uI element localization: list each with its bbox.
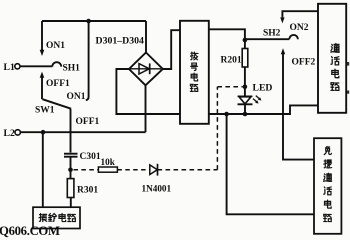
svg-text:ON1: ON1 xyxy=(67,92,86,102)
wire C301 to junction xyxy=(70,157,72,179)
junction L2 ringer tap xyxy=(41,130,46,135)
scan nub right edge lower xyxy=(347,91,349,94)
wire SH2 lead xyxy=(245,38,289,40)
svg-text:10k: 10k xyxy=(101,157,116,167)
bridge rectifier D301-D304 xyxy=(129,53,163,86)
junction LED lower bus xyxy=(243,112,248,117)
svg-text:Q606.COM: Q606.COM xyxy=(0,224,60,238)
scan nub right edge upper xyxy=(347,62,349,66)
wire ON1 hookswitch upper plunger xyxy=(41,21,43,50)
resistor R201 xyxy=(242,49,248,68)
svg-text:LED: LED xyxy=(253,83,273,94)
wire R201 top lead xyxy=(244,40,246,49)
svg-text:1N4001: 1N4001 xyxy=(142,184,172,194)
svg-text:R301: R301 xyxy=(77,186,98,196)
arrow OFF1 (up) xyxy=(40,72,45,78)
junction lower bus handsfree tap xyxy=(224,112,229,117)
wire bridge left arm down to lower bus xyxy=(116,69,180,114)
dashed control line to LED node xyxy=(217,86,242,88)
svg-text:OFF2: OFF2 xyxy=(292,58,316,68)
wire SW1 fixed contact drop from top bus xyxy=(86,21,89,100)
dashed control riser xyxy=(216,87,218,170)
arrow OFF2 (up) xyxy=(281,48,285,54)
wire lower bus dial box to speech box xyxy=(209,105,318,114)
dashed control line C301 node to 10k xyxy=(74,169,99,171)
wire R301 to ringer box xyxy=(70,198,72,208)
switch SH1 contact hook xyxy=(52,62,61,66)
switch SW1 blade xyxy=(42,99,71,109)
svg-text:SW1: SW1 xyxy=(35,106,55,116)
diode 1N4001 xyxy=(150,164,158,176)
wire bridge top arm xyxy=(145,21,147,53)
svg-text:OFF1: OFF1 xyxy=(76,117,100,127)
dashed control line 10k to diode xyxy=(117,169,149,171)
svg-text:C301: C301 xyxy=(80,152,101,162)
svg-text:L2: L2 xyxy=(4,128,15,139)
arrow ON1 (down) xyxy=(40,50,45,56)
terminal L1 xyxy=(15,64,20,69)
junction C301 R301 dashed node xyxy=(68,168,73,173)
svg-text:SH1: SH1 xyxy=(63,63,81,73)
wire R201 to LED xyxy=(244,67,246,96)
svg-text:D301–D304: D301–D304 xyxy=(96,36,145,47)
box dial circuit 拨号电路 xyxy=(180,21,209,124)
junction LED dashed node xyxy=(243,84,248,89)
arrow ON2 (down) xyxy=(280,17,284,23)
svg-text:ON2: ON2 xyxy=(290,23,309,33)
wire OFF2 drop to handsfree box xyxy=(283,54,314,160)
svg-text:SH2: SH2 xyxy=(263,29,281,39)
resistor 10k (horizontal) xyxy=(98,167,117,172)
wire L1 lead xyxy=(20,65,52,67)
wire L2 branch to ringer box xyxy=(42,132,44,207)
wire top bus L1 to bridge xyxy=(42,20,146,22)
box ringer circuit 振铃电路 xyxy=(33,207,80,228)
dashed control line diode to riser xyxy=(158,169,218,171)
svg-text:ON1: ON1 xyxy=(46,41,65,51)
wire blade to C301 xyxy=(70,109,72,153)
wire bridge bottom arm to L2 xyxy=(145,85,147,132)
wire OFF1 plunger lower xyxy=(41,77,43,99)
svg-text:OFF1: OFF1 xyxy=(46,79,70,89)
box speech circuit 通话电路 xyxy=(318,4,346,113)
LED D201 xyxy=(238,96,261,105)
wire bridge right arm to dial box xyxy=(163,30,180,69)
capacitor C301 xyxy=(64,154,78,157)
svg-text:L1: L1 xyxy=(4,62,15,73)
switch SH2 contact hook xyxy=(289,35,298,39)
svg-text:R201: R201 xyxy=(221,56,242,66)
wire lower bus branch to handsfree box xyxy=(227,114,314,214)
wire dial box to SH2 node xyxy=(209,29,245,40)
junction top bus xyxy=(86,19,91,24)
terminal L2 xyxy=(15,130,20,135)
junction SH2 node xyxy=(243,38,248,43)
wire speech box top lead xyxy=(282,11,318,17)
wire L2 lead xyxy=(21,131,146,133)
resistor R301 xyxy=(67,179,74,198)
wire LED cathode to lower bus xyxy=(244,104,246,114)
box handsfree speech circuit 免提通话电路 xyxy=(314,138,341,234)
